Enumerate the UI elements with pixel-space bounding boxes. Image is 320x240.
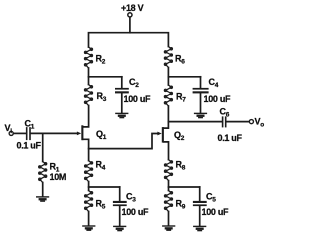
wire Vi to C1 <box>14 132 27 134</box>
svg-text:R4: R4 <box>96 160 106 172</box>
resistor R3 <box>84 85 92 106</box>
svg-text:10M: 10M <box>50 172 67 182</box>
svg-text:+18 V: +18 V <box>121 3 144 13</box>
svg-text:R7: R7 <box>176 92 186 104</box>
svg-text:R8: R8 <box>176 160 186 172</box>
svg-text:100 uF: 100 uF <box>122 207 150 217</box>
svg-text:C6: C6 <box>220 107 230 119</box>
capacitor C6 <box>222 116 227 127</box>
ground under R5 <box>82 225 95 231</box>
wire R9 to ground <box>168 212 170 226</box>
capacitor C1 <box>26 127 31 140</box>
supply node +18 V circle <box>128 13 132 17</box>
svg-text:Vo: Vo <box>255 117 265 129</box>
wire R3 to Q1 drain <box>83 106 88 127</box>
svg-text:C3: C3 <box>126 192 136 204</box>
ground under C2 <box>115 113 128 119</box>
svg-text:R6: R6 <box>175 54 185 66</box>
ground under R9 <box>162 225 175 231</box>
wire C1 to Q1 gate <box>31 132 77 134</box>
capacitor C5 <box>193 187 207 226</box>
wire top rail <box>89 33 169 47</box>
wire Q2 drain node to C6 <box>168 121 221 123</box>
resistor R6 <box>164 47 172 68</box>
wire C6 to Vo <box>227 121 250 123</box>
wire R1 to ground <box>42 183 44 197</box>
svg-text:100 uF: 100 uF <box>204 94 232 104</box>
svg-text:100 uF: 100 uF <box>124 94 152 104</box>
input terminal Vi circle <box>9 131 13 135</box>
resistor R5 <box>85 191 93 212</box>
wire R4 to node B <box>88 182 90 191</box>
wire R1 branch drop <box>42 133 44 161</box>
svg-text:R2: R2 <box>96 54 106 66</box>
transistor Q1 <box>77 125 89 160</box>
wire supply drop <box>129 17 131 32</box>
ground under C5 <box>193 226 206 232</box>
wire R7 to Q2 drain node <box>164 106 169 128</box>
output terminal Vo circle <box>249 120 253 124</box>
wire R5 to ground <box>88 212 90 226</box>
resistor R2 <box>84 47 92 68</box>
capacitor C3 <box>113 187 127 226</box>
svg-text:0.1 uF: 0.1 uF <box>17 141 42 151</box>
svg-text:100 uF: 100 uF <box>202 207 230 217</box>
svg-text:0.1 uF: 0.1 uF <box>218 133 243 143</box>
capacitor C2 <box>115 77 129 113</box>
node C line to C4 <box>168 76 200 78</box>
svg-text:Q1: Q1 <box>96 129 107 141</box>
svg-text:R5: R5 <box>96 199 106 211</box>
svg-text:Q2: Q2 <box>174 130 185 142</box>
wire R2 to node A <box>88 68 90 85</box>
ground under C3 <box>113 226 126 232</box>
resistor R7 <box>164 85 172 106</box>
svg-text:C2: C2 <box>129 77 139 89</box>
ground under R1 <box>36 196 49 202</box>
resistor R1 <box>39 162 47 183</box>
node B line to C3 <box>89 186 120 188</box>
capacitor C4 <box>193 77 209 113</box>
ground under C4 <box>194 113 207 119</box>
svg-text:Vi: Vi <box>5 123 13 135</box>
svg-text:C5: C5 <box>206 192 216 204</box>
resistor R4 <box>85 161 93 182</box>
resistor R9 <box>164 191 172 212</box>
svg-text:R9: R9 <box>176 199 186 211</box>
wire R8 to node D <box>168 181 170 191</box>
resistor R8 <box>164 160 172 181</box>
svg-text:R3: R3 <box>97 91 107 103</box>
transistor Q2 <box>157 127 168 160</box>
wire R6 to node C <box>167 68 169 86</box>
wire Q1 source to Q2 gate <box>89 134 158 149</box>
node D line to C5 <box>169 186 200 188</box>
node A line to C2 <box>89 76 122 78</box>
svg-text:C4: C4 <box>209 77 219 89</box>
